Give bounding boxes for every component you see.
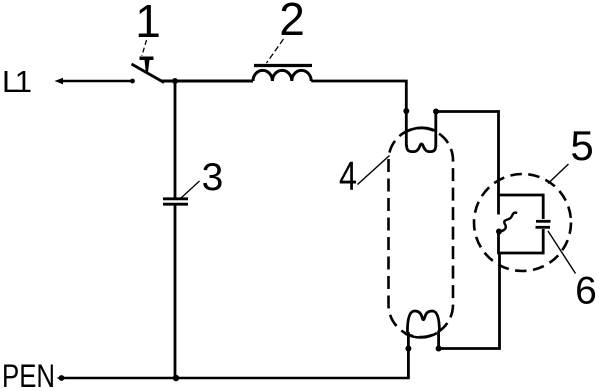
leader line to 3	[181, 181, 200, 198]
wire lamp top-right pin to starter	[436, 112, 499, 196]
switch S blade	[132, 64, 165, 83]
starter switch contact dot	[496, 229, 502, 235]
wire PEN bottom run	[62, 377, 408, 378]
svg-text:2: 2	[279, 0, 305, 45]
starter body rectangle top side	[499, 195, 544, 219]
lamp pin dot top-right	[433, 109, 439, 115]
capacitor C6 plates	[536, 220, 551, 223]
lamp bottom-left pin	[407, 332, 410, 378]
leader line to 1	[142, 40, 147, 56]
svg-text:1: 1	[135, 0, 161, 47]
wire node B vertical (switch to PEN)	[174, 81, 177, 198]
wire top run to inductor	[161, 80, 253, 83]
L1 arrowhead	[55, 78, 64, 84]
wire inductor to lamp corner	[311, 81, 406, 146]
starter 5 dashed circle	[474, 174, 571, 271]
svg-text:PEN: PEN	[2, 358, 55, 391]
lamp pin dot top-left	[403, 108, 409, 114]
inductor coil 2	[253, 70, 311, 81]
junction dot PEN-C3	[173, 375, 179, 381]
lamp bottom-right pin and wire to starter bottom	[439, 253, 500, 349]
inductor core bar	[254, 64, 312, 67]
lamp envelope top cap solid arc	[405, 128, 436, 133]
wire L1 feed	[59, 80, 131, 83]
lamp 4 dashed envelope	[389, 128, 454, 337]
capacitor C3 plates	[163, 197, 188, 200]
svg-text:3: 3	[202, 156, 224, 199]
switch S contact dot	[130, 79, 135, 84]
lamp top filament	[407, 144, 436, 152]
leader line to 4	[358, 156, 390, 185]
svg-text:4: 4	[339, 153, 357, 199]
PEN start dot	[59, 375, 65, 381]
svg-text:L1: L1	[2, 64, 32, 99]
junction dot A	[172, 78, 178, 84]
leader line to 2	[267, 39, 284, 63]
lamp bottom filament	[407, 311, 439, 332]
svg-text:6: 6	[575, 270, 597, 313]
leader line to 6	[548, 231, 576, 274]
starter body rectangle bottom side	[499, 229, 544, 253]
switch actuator arrow	[140, 57, 154, 73]
leader line to 5	[548, 164, 569, 184]
lamp pin dot bottom-right	[436, 346, 442, 352]
svg-text:5: 5	[570, 122, 593, 169]
lamp pin dot bottom-left	[405, 346, 411, 352]
lamp envelope bottom cap solid arc	[405, 333, 437, 338]
starter bimetal squiggle	[500, 213, 518, 232]
